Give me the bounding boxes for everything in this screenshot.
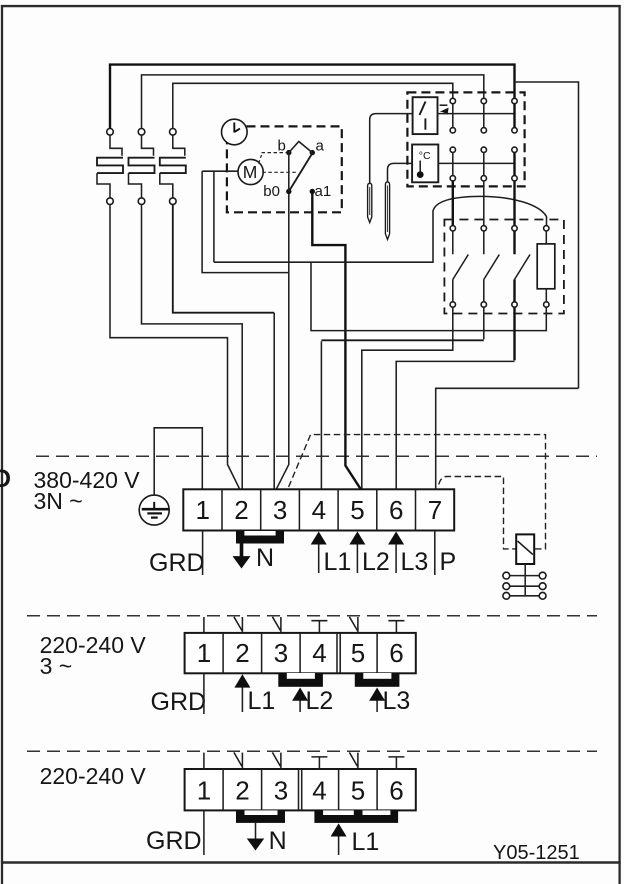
section divider 2: [27, 615, 597, 617]
entry mark b5: [349, 752, 358, 769]
arrow L1 (up): [311, 532, 352, 577]
wire branch to lamp col4: [311, 262, 546, 330]
arrow L3 (up): [388, 532, 428, 577]
heating element R2: [129, 129, 155, 205]
arrow L1 block2: [234, 674, 275, 715]
wire below block2 T1: [203, 673, 205, 714]
probe of energy regulator: [368, 114, 413, 223]
entry mark c4: [311, 621, 327, 633]
wire regulator output: [437, 113, 515, 115]
clock timer symbol: [222, 119, 248, 145]
svg-text:4: 4: [312, 638, 326, 668]
wire oven col2 to T4 (thick h): [483, 307, 485, 339]
svg-text:3N ~: 3N ~: [34, 488, 83, 514]
svg-text:1: 1: [197, 776, 211, 806]
entry mark c2: [234, 617, 243, 633]
svg-text:3 ~: 3 ~: [40, 653, 73, 679]
svg-text:4: 4: [312, 495, 326, 525]
motor M1: [238, 159, 263, 184]
wire motor outer to T3 kink: [202, 171, 288, 272]
contact grid 1 col2: [481, 98, 486, 133]
svg-text:2: 2: [234, 495, 248, 525]
accessory dashed wire from T7: [439, 477, 516, 549]
svg-text:5: 5: [351, 776, 365, 806]
terminal block 3: [185, 769, 416, 810]
contact grid 1 col3: [512, 98, 517, 133]
contact grid 2 col2: [481, 147, 486, 181]
wire below block3 T1: [203, 810, 205, 855]
svg-text:220-240 V: 220-240 V: [40, 763, 147, 789]
svg-text:6: 6: [389, 638, 403, 668]
svg-text:a: a: [316, 138, 325, 155]
svg-text:GRD: GRD: [146, 827, 202, 855]
wire below T7 and label P: [434, 531, 436, 576]
accessory connector: [503, 564, 546, 599]
svg-text:D: D: [0, 465, 11, 493]
contact grid 2 col3: [512, 147, 517, 181]
contact grid 2 col1: [450, 147, 455, 181]
svg-text:3: 3: [274, 776, 288, 806]
jumper N bar: [236, 531, 284, 544]
svg-text:L2: L2: [306, 687, 334, 715]
wire b0 down to T3: [277, 194, 289, 489]
timer unit dashed box: [227, 126, 342, 212]
probe of thermostat: [385, 163, 412, 239]
arrow L1 block3 (up): [331, 823, 380, 856]
arc wire (oven bridge): [214, 196, 547, 262]
switch contact b-a: [289, 142, 313, 153]
entry mark c1: [203, 617, 205, 633]
svg-text:2: 2: [235, 638, 249, 668]
svg-text:L1: L1: [324, 548, 352, 576]
entry mark b4: [311, 757, 327, 769]
svg-text:b: b: [278, 138, 286, 155]
node a1: [310, 189, 315, 194]
jumper bar 3-4: [278, 673, 323, 687]
svg-text:M: M: [243, 162, 258, 182]
svg-text:6: 6: [389, 776, 403, 806]
svg-text:5: 5: [351, 638, 365, 668]
wire top line 2 (R2 to control col2): [142, 75, 484, 129]
entry mark c5: [349, 617, 358, 633]
arrow N (down): [233, 544, 275, 573]
svg-text:L1: L1: [248, 687, 276, 715]
svg-text:1: 1: [196, 495, 210, 525]
wire grid2 col2 down: [483, 181, 485, 226]
wire thermostat output: [438, 162, 515, 164]
wire el3 to T3: [173, 205, 274, 313]
svg-text:°C: °C: [419, 150, 431, 162]
border frame: [1, 5, 3, 884]
svg-text:2: 2: [235, 776, 249, 806]
jumper bar 2-3: [236, 810, 285, 823]
contact grid 1 col1: [450, 98, 455, 133]
node b: [286, 150, 291, 155]
arrow N block3 (down): [247, 823, 287, 855]
entry mark b3: [272, 752, 281, 769]
wire b to b0: [288, 153, 290, 192]
wire below T1: [202, 531, 204, 576]
node b0: [286, 189, 291, 194]
wire grid2 col3 down (thick): [513, 181, 515, 226]
control unit dashed box: [407, 92, 524, 186]
wire el2 to T2: [142, 205, 243, 489]
arrow L2 block2: [292, 687, 333, 715]
ground symbol: [139, 495, 169, 525]
svg-text:5: 5: [350, 495, 364, 525]
svg-text:a1: a1: [315, 183, 332, 200]
arrow L2 (up): [349, 532, 389, 577]
wire ground to T1: [154, 428, 202, 495]
heating element R3: [160, 129, 186, 205]
oven switch dashed box: [444, 220, 564, 314]
oven contact 1: [450, 226, 468, 308]
wire a1 down to T5 (thick): [312, 194, 360, 489]
jumper bar 4-5: [314, 810, 398, 823]
svg-text:6: 6: [389, 495, 403, 525]
wire branch to right-side vertical: [515, 82, 579, 388]
svg-text:P: P: [440, 548, 457, 576]
heating element R1: [97, 129, 123, 205]
accessory dashed wire from T3: [289, 435, 546, 549]
entry mark c3: [272, 617, 281, 633]
wire motor left: [202, 170, 238, 172]
thermostat box: [412, 145, 438, 183]
switch blade b0-a: [289, 155, 312, 192]
svg-text:L3: L3: [401, 548, 429, 576]
oven contact 3: [512, 226, 530, 308]
wire motor inner (arc feed): [213, 171, 215, 262]
wire grid2 col1 down (thick): [452, 181, 454, 226]
wire oven col1 to T5: [362, 307, 453, 489]
section divider 3: [27, 750, 597, 752]
wire oven col3 to T6: [513, 307, 515, 360]
mech link clock to b: [259, 153, 287, 164]
arrow L3 block2: [369, 687, 410, 715]
svg-text:N: N: [256, 544, 274, 572]
mech link motor to blade: [262, 171, 297, 173]
wire right side to T7: [436, 388, 579, 489]
oven contact 2: [481, 226, 499, 308]
wire el1 to T2: [110, 205, 240, 489]
svg-text:L3: L3: [383, 687, 411, 715]
svg-text:L1: L1: [352, 828, 380, 856]
jumper bar 5-6: [355, 673, 400, 687]
entry mark b1: [203, 753, 205, 769]
svg-text:1: 1: [197, 638, 211, 668]
energy regulator switch box: [413, 97, 438, 134]
svg-text:3: 3: [274, 638, 288, 668]
terminal block 2: [185, 633, 416, 673]
svg-text:GRD: GRD: [151, 688, 207, 716]
actuator arrow: [440, 105, 449, 114]
svg-text:3: 3: [273, 495, 287, 525]
svg-text:GRD: GRD: [149, 549, 205, 577]
wire top line 1 (R1 to control col3): [110, 65, 515, 129]
section divider 1: [36, 455, 597, 457]
terminal block 1: [183, 489, 454, 530]
entry mark b2: [234, 752, 243, 769]
entry mark b6: [388, 757, 404, 769]
svg-text:7: 7: [428, 495, 442, 525]
svg-text:b0: b0: [263, 183, 280, 200]
entry mark c6: [388, 621, 404, 633]
svg-text:L2: L2: [362, 548, 390, 576]
resistor (oven lamp): [537, 226, 555, 308]
wire top line 3 (R3 to control col1): [173, 83, 453, 128]
accessory relay: [516, 534, 534, 564]
svg-text:4: 4: [312, 776, 326, 806]
svg-text:Y05-1251: Y05-1251: [493, 842, 580, 864]
node a: [310, 150, 315, 155]
svg-text:N: N: [269, 827, 287, 855]
